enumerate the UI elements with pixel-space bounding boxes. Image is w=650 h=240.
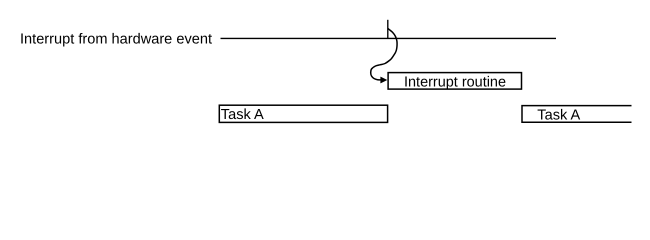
box: Task A (left): [219, 105, 387, 122]
wire: hardware event signal line: [221, 37, 557, 39]
arrowhead: [380, 77, 387, 84]
svg-text:Interrupt from hardware event: Interrupt from hardware event: [20, 32, 212, 48]
interrupt tick on signal line: [387, 20, 389, 39]
box: Task A (right, open ended): [522, 106, 632, 123]
svg-text:Task A: Task A: [221, 107, 264, 123]
svg-text:Task A: Task A: [537, 108, 580, 124]
curved arrow from tick to interrupt routine: [371, 28, 397, 80]
svg-text:Interrupt routine: Interrupt routine: [404, 74, 506, 90]
box: Interrupt routine: [388, 73, 521, 90]
